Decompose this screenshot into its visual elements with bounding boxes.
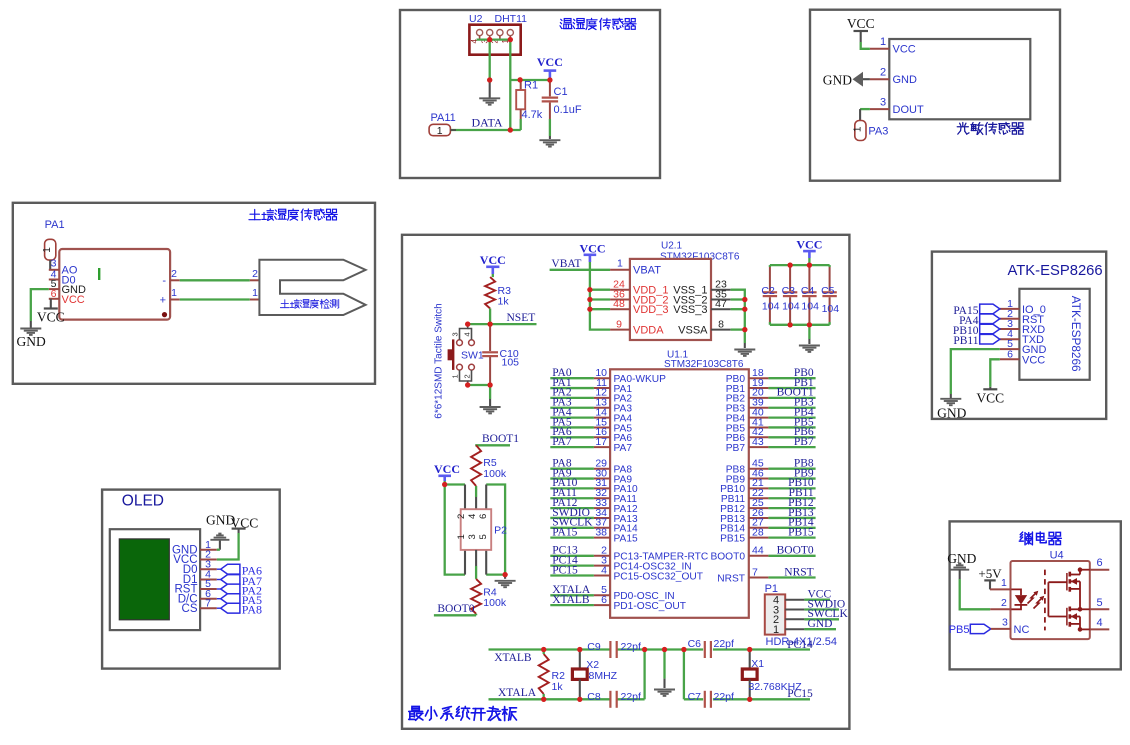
pin 15 PA5 (U1.1) — [550, 416, 632, 434]
net flag PA8 — [217, 603, 262, 617]
svg-text:7: 7 — [752, 566, 758, 578]
svg-text:1: 1 — [852, 126, 863, 132]
pin 28 PB15 (U1.1 right) — [720, 526, 816, 544]
pin 5 (relay) — [1080, 597, 1109, 610]
pin 6 D/C (OLED) — [178, 588, 217, 605]
module ATK-ESP8266 body — [1019, 289, 1089, 380]
svg-text:C4: C4 — [801, 285, 815, 297]
svg-text:2: 2 — [463, 374, 472, 378]
svg-text:3: 3 — [1002, 616, 1008, 628]
pin 7 CS (OLED) — [182, 597, 217, 614]
net flag PA15 — [953, 304, 999, 317]
capacitor C3 — [783, 265, 797, 325]
svg-text:47: 47 — [715, 298, 727, 310]
svg-text:6: 6 — [1007, 348, 1013, 360]
resistor R1 — [516, 77, 525, 130]
svg-text:8MHZ: 8MHZ — [589, 670, 618, 682]
port PA3 — [852, 121, 866, 141]
capacitor C8 — [610, 691, 616, 708]
svg-text:2: 2 — [1001, 597, 1007, 609]
svg-text:PB5: PB5 — [949, 624, 970, 636]
svg-text:6*6*12SMD Tactile Switch: 6*6*12SMD Tactile Switch — [434, 303, 445, 418]
pin 3 PC14-OSC32_IN (U1.1) — [550, 554, 691, 572]
resistor R4 — [471, 550, 481, 615]
switch SW1 — [448, 324, 475, 385]
ground (crystal) — [654, 690, 675, 696]
pin 26 PB13 (U1.1 right) — [720, 507, 816, 525]
optocoupler LED — [1012, 589, 1028, 609]
power VCC (R3) — [480, 253, 506, 277]
svg-text:BOOT0: BOOT0 — [710, 552, 745, 563]
pin 16 PA6 (U1.1) — [550, 426, 632, 444]
title 最小系统开发板 — [409, 706, 517, 720]
IC U1.1 body — [610, 369, 749, 618]
pin 11 PA1 (U1.1) — [550, 377, 632, 395]
svg-text:XTALA: XTALA — [498, 687, 537, 699]
wire BOOT0 — [434, 614, 476, 616]
pin 46 PB9 (U1.1 right) — [726, 467, 816, 485]
pin 6 (relay) — [1080, 557, 1109, 570]
power VCC (soil) — [37, 299, 65, 325]
pin 48 VDD_3 — [610, 298, 668, 316]
pin 4 D1 (OLED) — [183, 569, 217, 586]
svg-text:1k: 1k — [552, 681, 564, 693]
capacitor C7 — [705, 691, 711, 708]
svg-text:1: 1 — [42, 247, 53, 253]
svg-text:ATK-ESP8266: ATK-ESP8266 — [1069, 296, 1083, 372]
pin 1 (relay) — [990, 577, 1012, 589]
pin 33 PA12 (U1.1) — [550, 497, 638, 515]
pin 21 PB10 (U1.1 right) — [720, 477, 816, 495]
pin 25 PB12 (U1.1 right) — [720, 497, 816, 515]
ground (caps) — [799, 346, 820, 352]
svg-text:3: 3 — [880, 96, 886, 108]
svg-text:VCC: VCC — [434, 462, 460, 476]
pin 30 PA9 (U1.1) — [550, 467, 632, 485]
svg-text:PA7: PA7 — [614, 443, 633, 454]
svg-text:C5: C5 — [821, 285, 835, 297]
svg-text:38: 38 — [595, 526, 607, 538]
svg-text:3: 3 — [451, 332, 460, 336]
net flag PA2 — [217, 583, 262, 597]
wire P2 right — [486, 485, 508, 579]
svg-text:PA15: PA15 — [614, 533, 638, 544]
svg-text:VCC: VCC — [976, 390, 1004, 405]
pin 43 PB7 (U1.1 right) — [726, 436, 816, 454]
svg-text:PC15-OSC32_OUT: PC15-OSC32_OUT — [614, 571, 703, 582]
pin 44 BOOT0 (U1.1 right) — [710, 545, 815, 563]
svg-text:DOUT: DOUT — [893, 104, 924, 116]
svg-text:GND: GND — [937, 406, 966, 421]
svg-text:GND: GND — [17, 334, 46, 349]
svg-text:PC15: PC15 — [787, 688, 813, 700]
jumper P2 — [456, 509, 491, 550]
svg-text:VBAT: VBAT — [551, 258, 581, 270]
svg-text:PA1: PA1 — [45, 219, 65, 231]
crystal X2 — [572, 650, 587, 700]
svg-text:1: 1 — [451, 374, 460, 378]
svg-text:1: 1 — [1001, 577, 1007, 589]
svg-text:VCC: VCC — [231, 516, 259, 531]
svg-text:3: 3 — [467, 534, 478, 539]
svg-text:C3: C3 — [782, 285, 796, 297]
svg-text:100k: 100k — [483, 468, 507, 480]
pin 12 PA2 (U1.1) — [550, 387, 632, 405]
LED emission arrows — [1028, 591, 1045, 609]
svg-text:X1: X1 — [751, 658, 764, 670]
capacitor C4 — [802, 265, 816, 325]
svg-text:OLED: OLED — [122, 493, 164, 510]
svg-text:1: 1 — [437, 125, 443, 137]
svg-text:C1: C1 — [554, 86, 568, 98]
svg-text:104: 104 — [801, 300, 819, 312]
wire DOUT to PA3 — [860, 109, 870, 120]
pin 3 (relay) — [991, 616, 1030, 636]
net flag PB5 — [949, 624, 991, 636]
svg-text:104: 104 — [762, 300, 780, 312]
svg-text:VCC: VCC — [480, 253, 506, 267]
svg-text:VCC: VCC — [62, 294, 85, 306]
svg-text:PA8: PA8 — [242, 603, 262, 617]
capacitor C10 — [482, 324, 498, 385]
svg-text:104: 104 — [822, 303, 840, 315]
ground (soil) — [17, 329, 46, 350]
net flag PA5 — [217, 593, 262, 607]
pin 31 PA10 (U1.1) — [550, 477, 638, 495]
capacitor C2 — [763, 265, 777, 325]
svg-text:4: 4 — [463, 332, 472, 336]
capacitor C5 — [822, 265, 836, 325]
svg-text:5: 5 — [478, 534, 489, 539]
MOSFET Q2 (bottom) — [1067, 607, 1082, 632]
svg-text:22pf: 22pf — [621, 641, 642, 653]
title 土壤湿度传感器 — [249, 209, 337, 221]
svg-text:6: 6 — [601, 594, 607, 606]
wire VBAT — [550, 269, 611, 271]
svg-text:105: 105 — [502, 357, 520, 369]
pin 5 GND (ESP8266) — [1000, 338, 1047, 356]
pin 9 VDDA — [610, 319, 664, 337]
wire GND (P1) — [785, 618, 836, 630]
port PA1 — [42, 239, 56, 260]
svg-text:BOOT1: BOOT1 — [482, 433, 519, 445]
section frame 继电器 — [950, 521, 1121, 669]
svg-text:2: 2 — [456, 514, 467, 519]
power VCC (DHT) — [537, 55, 563, 80]
pin 1 plus — [160, 287, 180, 306]
section frame 温湿度传感器 — [400, 10, 660, 178]
svg-text:104: 104 — [782, 300, 800, 312]
MOSFET Q1 (top) — [1067, 567, 1082, 609]
svg-text:48: 48 — [613, 298, 625, 310]
svg-text:6: 6 — [51, 288, 57, 300]
svg-text:CS: CS — [182, 603, 198, 615]
pin 47 VSS_3 — [673, 298, 730, 316]
svg-text:C9: C9 — [587, 641, 601, 653]
svg-text:28: 28 — [752, 526, 764, 538]
net flag PA6 — [217, 564, 262, 578]
svg-text:6: 6 — [1097, 557, 1103, 569]
IC U2.1 body — [630, 259, 711, 340]
pin 24 VDD_1 — [610, 279, 668, 297]
svg-text:43: 43 — [752, 436, 764, 448]
svg-text:VSSA: VSSA — [678, 324, 708, 336]
wire SWCLK (P1) — [785, 608, 848, 620]
svg-text:17: 17 — [595, 436, 607, 448]
pin 2 minus — [162, 268, 179, 287]
svg-text:C8: C8 — [587, 691, 601, 703]
svg-text:ATK-ESP8266: ATK-ESP8266 — [1008, 263, 1103, 279]
polarity dot — [162, 312, 167, 317]
pin 1 IO_0 (ESP8266) — [1000, 298, 1046, 316]
pin 3 DOUT — [870, 96, 924, 116]
wire GND (ESP8266) — [951, 349, 1000, 398]
ground (SW1/C10) — [480, 407, 501, 413]
pin 4 TXD (ESP8266) — [1000, 328, 1044, 346]
svg-text:VCC: VCC — [580, 242, 606, 256]
wire probe plus — [180, 287, 271, 306]
svg-text:44: 44 — [752, 545, 764, 557]
svg-text:4.7k: 4.7k — [522, 109, 543, 121]
ground (U2.1 VSS) — [734, 350, 755, 356]
svg-text:C7: C7 — [688, 691, 702, 703]
svg-text:GND: GND — [947, 551, 976, 566]
wire VCC (ESP8266) — [990, 359, 1000, 389]
svg-text:XTALB: XTALB — [552, 594, 590, 606]
svg-text:1: 1 — [617, 258, 623, 270]
svg-text:NC: NC — [1014, 624, 1030, 636]
svg-text:R1: R1 — [524, 80, 538, 92]
net flag PA4 — [959, 314, 1000, 327]
svg-text:100k: 100k — [483, 597, 507, 609]
wire SW1 bottom — [465, 382, 493, 406]
relay U4 body — [1011, 561, 1090, 639]
svg-text:VCC: VCC — [1022, 354, 1045, 366]
pin 41 PB5 (U1.1 right) — [726, 416, 816, 434]
wire P2 left — [442, 482, 465, 575]
pin 19 PB1 (U1.1 right) — [726, 377, 816, 395]
svg-text:+: + — [160, 294, 166, 306]
wire DHT pins bus — [477, 37, 513, 42]
pin 3 RXD (ESP8266) — [1000, 318, 1045, 336]
pin 18 PB0 (U1.1 right) — [726, 367, 816, 385]
pin 17 PA7 (U1.1) — [550, 436, 632, 454]
svg-text:PB7: PB7 — [794, 436, 814, 448]
svg-text:PD1-OSC_OUT: PD1-OSC_OUT — [614, 601, 686, 612]
capacitor C6 — [705, 641, 711, 658]
svg-text:PB11: PB11 — [953, 335, 978, 347]
svg-text:2: 2 — [880, 66, 886, 78]
pin 37 PA14 (U1.1) — [550, 517, 638, 535]
indicator mark — [98, 268, 100, 280]
svg-text:PB7: PB7 — [726, 443, 746, 454]
svg-text:VCC: VCC — [37, 310, 65, 325]
svg-text:4: 4 — [1097, 617, 1103, 629]
ground (C1) — [539, 140, 560, 146]
svg-text:1: 1 — [773, 624, 779, 636]
svg-text:1k: 1k — [498, 296, 510, 308]
title 光敏传感器 — [957, 122, 1023, 134]
pin 40 PB4 (U1.1 right) — [726, 406, 816, 424]
pin 5 RST (OLED) — [175, 578, 217, 595]
wire cap rail top — [770, 263, 830, 268]
pin 38 PA15 (U1.1) — [550, 526, 638, 544]
crystal X1 — [742, 650, 757, 700]
svg-text:DATA: DATA — [472, 116, 503, 130]
svg-text:NRST: NRST — [784, 566, 813, 578]
svg-text:22pf: 22pf — [621, 691, 642, 703]
svg-text:C2: C2 — [761, 285, 775, 297]
pin 1 VBAT — [610, 258, 661, 277]
svg-text:2: 2 — [252, 268, 258, 280]
resistor R2 — [539, 650, 549, 700]
wire SWDIO (P1) — [785, 598, 845, 610]
wire probe minus — [180, 268, 268, 287]
svg-text:4: 4 — [601, 564, 607, 576]
svg-text:GND: GND — [893, 74, 918, 86]
ground (P2) — [495, 581, 516, 587]
power VCC (decoupling caps) — [796, 238, 822, 266]
svg-text:PA15: PA15 — [552, 526, 577, 538]
svg-text:+5V: +5V — [978, 566, 1002, 581]
svg-text:1: 1 — [171, 287, 177, 299]
power VCC (P2) — [434, 462, 460, 485]
svg-text:VDD_3: VDD_3 — [633, 304, 668, 316]
pin 13 PA3 (U1.1) — [550, 397, 632, 415]
title 继电器 — [1019, 532, 1061, 545]
svg-text:9: 9 — [616, 319, 622, 331]
pin 3 D0 (OLED) — [183, 558, 217, 575]
section frame 光敏传感器 — [810, 10, 1060, 181]
svg-text:8: 8 — [718, 319, 724, 331]
svg-text:1: 1 — [456, 534, 467, 539]
junction dots overlay — [442, 37, 812, 702]
svg-text:PA3: PA3 — [868, 126, 888, 138]
svg-text:1: 1 — [252, 287, 258, 299]
capacitor C1 — [542, 77, 558, 139]
pin 42 PB6 (U1.1 right) — [726, 426, 816, 444]
section frame OLED — [102, 490, 280, 669]
svg-text:C6: C6 — [688, 638, 702, 650]
svg-text:VCC: VCC — [537, 55, 563, 69]
pin 6 VCC (ESP8266) — [1000, 348, 1045, 366]
pin 20 PB2 (U1.1 right) — [726, 387, 816, 405]
soil probe symbol — [259, 260, 365, 315]
svg-text:VSS_3: VSS_3 — [673, 304, 707, 316]
pin 5 GND — [49, 278, 86, 296]
connector P1 body — [765, 594, 785, 636]
wire XTALB rail — [489, 647, 811, 652]
pin 45 PB8 (U1.1 right) — [726, 458, 816, 476]
svg-text:2: 2 — [171, 268, 177, 280]
wire VCC (P1) — [785, 589, 831, 601]
svg-text:PB15: PB15 — [788, 526, 814, 538]
svg-text:P1: P1 — [765, 583, 778, 595]
svg-text:VDDA: VDDA — [633, 324, 664, 336]
wire DHT pin3 to ground — [487, 40, 492, 98]
svg-text:DHT11: DHT11 — [495, 13, 528, 25]
power VCC (OLED pin2) — [217, 516, 258, 560]
pin 22 PB11 (U1.1 right) — [721, 487, 816, 505]
resistor R5 — [471, 445, 481, 509]
pin 7 NRST (U1.1 right) — [717, 566, 815, 584]
ground (ESP8266) — [937, 399, 966, 421]
power VCC (light sensor) — [847, 16, 875, 49]
pin 34 PA13 (U1.1) — [550, 507, 638, 525]
svg-text:-: - — [162, 275, 166, 287]
wire XTALA rail — [489, 697, 811, 702]
svg-text:PC14: PC14 — [787, 639, 813, 651]
wire BOOT1 — [475, 444, 510, 446]
pin 6 VCC — [49, 288, 85, 306]
power VCC (ESP8266) — [976, 389, 1004, 405]
pin 2 RST (ESP8266) — [1000, 308, 1044, 326]
svg-text:5: 5 — [1097, 597, 1103, 609]
capacitor C9 — [610, 641, 616, 658]
pin 2 PC13-TAMPER-RTC (U1.1) — [550, 545, 708, 563]
svg-text:NSET: NSET — [507, 312, 536, 324]
svg-text:XTALB: XTALB — [494, 652, 532, 664]
OLED display area — [119, 539, 169, 620]
power +5V — [978, 566, 1002, 589]
pin 35 VSS_2 — [673, 289, 730, 307]
pin 10 PA0-WKUP (U1.1) — [550, 367, 666, 385]
soil sensor module body — [59, 249, 170, 320]
svg-text:4: 4 — [467, 514, 478, 519]
pin 36 VDD_2 — [610, 289, 668, 307]
light sensor module body — [889, 39, 1030, 119]
section frame ATK-ESP8266 — [932, 252, 1106, 419]
svg-text:PC15: PC15 — [552, 564, 578, 576]
svg-text:VCC: VCC — [847, 16, 875, 31]
ground flag GND (relay) — [947, 551, 976, 579]
wire PA1 to AO — [49, 260, 51, 270]
wire GND net (soil) — [31, 289, 49, 327]
wire VCC to VDD pins — [587, 270, 610, 330]
pin 14 PA4 (U1.1) — [550, 406, 632, 424]
wire rail link right — [683, 650, 685, 700]
ground (DHT pin3) — [479, 98, 500, 104]
svg-text:0.1uF: 0.1uF — [554, 104, 582, 116]
net flag PA7 — [217, 574, 262, 588]
svg-text:NRST: NRST — [717, 573, 745, 584]
svg-text:GND: GND — [823, 72, 852, 87]
svg-text:VCC: VCC — [893, 44, 916, 56]
svg-text:1: 1 — [880, 36, 886, 48]
svg-text:PA7: PA7 — [552, 436, 572, 448]
gate drive rail — [1048, 582, 1067, 616]
section frame 土壤湿度传感器 — [13, 203, 375, 384]
pin 4 PC15-OSC32_OUT (U1.1) — [550, 564, 703, 582]
ground flag GND (light sensor) — [823, 72, 870, 88]
pin 3 AO — [49, 258, 78, 277]
section frame 最小系统开发板 — [402, 235, 849, 729]
pin 27 PB14 (U1.1 right) — [720, 517, 816, 535]
isolation dashed line — [1044, 570, 1046, 631]
pin 4 D0 — [49, 268, 76, 286]
svg-text:VCC: VCC — [796, 238, 822, 252]
svg-text:GND: GND — [808, 618, 833, 630]
port PA11 — [429, 124, 456, 137]
wire VSS to ground — [731, 290, 748, 348]
power VCC (U2.1) — [580, 242, 606, 270]
pin 39 PB3 (U1.1 right) — [726, 397, 816, 415]
ground (OLED pin1) — [206, 513, 235, 550]
net flag PB11 — [953, 334, 999, 347]
connector U2 DHT11 body — [469, 25, 520, 55]
svg-text:BOOT0: BOOT0 — [777, 545, 814, 557]
svg-text:U4: U4 — [1050, 550, 1064, 562]
